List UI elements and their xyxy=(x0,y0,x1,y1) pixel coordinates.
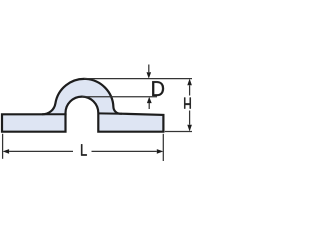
D dimension up arrow xyxy=(147,97,152,109)
D dimension down arrow xyxy=(147,65,152,79)
internal flange-top edge under right limb xyxy=(98,112,122,114)
technical drawing: pipe saddle clamp with D, H, L dimensions xyxy=(0,0,195,240)
L extension line right xyxy=(162,134,164,161)
label H xyxy=(184,98,191,109)
extension line from outer arc peak xyxy=(84,78,192,80)
extension line from flange bottom right xyxy=(165,131,192,133)
label D xyxy=(152,81,164,96)
internal flange-top edge under left limb xyxy=(42,113,67,115)
L dimension line with arrows xyxy=(3,149,164,154)
L extension line left xyxy=(2,134,4,159)
H dimension vertical line with arrows xyxy=(187,79,192,132)
label L xyxy=(81,144,87,155)
extension line from inner arch top xyxy=(82,96,157,98)
saddle clamp body xyxy=(2,79,163,132)
